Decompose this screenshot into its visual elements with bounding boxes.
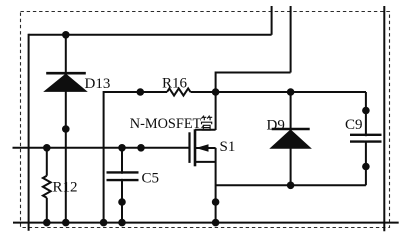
node R12 bottom junction bbox=[43, 219, 51, 227]
wire gate input horizontal y=92 bbox=[104, 91, 167, 93]
svg-text:C9: C9 bbox=[345, 117, 363, 133]
wire R12 branch x=46.8 bbox=[46, 148, 48, 223]
label guan character (drawn) bbox=[201, 116, 212, 130]
svg-text:D13: D13 bbox=[85, 76, 111, 92]
svg-text:S1: S1 bbox=[220, 139, 236, 155]
wire C5 branch x=122 bbox=[121, 148, 123, 223]
label D9 bbox=[267, 118, 285, 134]
node R16 input bbox=[137, 88, 145, 96]
wire right vertical bus x=384.3 bbox=[383, 6, 385, 231]
capacitor C5 bbox=[107, 172, 139, 180]
label D13 bbox=[85, 76, 111, 92]
label C9 bbox=[345, 117, 363, 133]
node D9 top junction bbox=[287, 88, 295, 96]
node R12 top junction bbox=[43, 144, 51, 152]
wire top lead-out left (to x=271.6) bbox=[271, 6, 273, 35]
svg-text:R12: R12 bbox=[53, 180, 78, 196]
node C9 top terminal bbox=[362, 107, 370, 115]
capacitor C9 bbox=[350, 135, 382, 142]
node drain junction bbox=[212, 88, 220, 96]
svg-text:N-MOSFET: N-MOSFET bbox=[130, 116, 202, 132]
label C5 bbox=[142, 171, 160, 187]
wire top-left horizontal rail bbox=[29, 34, 272, 36]
node gate rail junction bbox=[137, 144, 145, 152]
wire drain vertical x=215.6 bbox=[215, 72, 217, 131]
wire top lead-out right (to x=290.6) bbox=[290, 6, 292, 73]
label R16 bbox=[162, 76, 188, 92]
wire D9-C9 bottom link y=185.3 bbox=[216, 184, 366, 186]
diode D9 bbox=[271, 129, 311, 148]
wire left vertical bus bbox=[28, 34, 30, 231]
wire gate rail y=147.8 bbox=[13, 147, 190, 149]
wire R16 output to drain node bbox=[191, 91, 367, 93]
node gate input rail junction bbox=[100, 219, 108, 227]
wire drain top link y=72.5 bbox=[216, 72, 291, 74]
wire D13 branch x=65.8 bbox=[65, 35, 67, 223]
node C9 bottom terminal bbox=[362, 163, 370, 171]
svg-text:C5: C5 bbox=[142, 171, 160, 187]
wire bottom ground rail y=222.6 bbox=[13, 222, 399, 224]
node C5 bottom rail junction bbox=[118, 219, 126, 227]
node source terminal bbox=[212, 198, 220, 206]
node D13 bottom rail junction bbox=[62, 219, 70, 227]
wire gate input vertical x=103.6 bbox=[103, 91, 105, 223]
node D13 bottom terminal bbox=[62, 125, 70, 133]
node D9 bottom junction bbox=[287, 182, 295, 190]
diode D13 bbox=[45, 73, 87, 91]
node C5 top junction bbox=[118, 144, 126, 152]
svg-text:D9: D9 bbox=[267, 118, 285, 134]
label S1 bbox=[220, 139, 236, 155]
N-MOSFET Q1 (S1) bbox=[190, 129, 216, 166]
resistor R16 bbox=[167, 88, 191, 95]
label N-MOSFET (text part) bbox=[130, 116, 202, 132]
resistor R12 bbox=[43, 176, 51, 198]
node source rail junction bbox=[212, 219, 220, 227]
dashed module boundary box bbox=[21, 12, 390, 228]
wire D9 branch x=290.6 bbox=[290, 92, 292, 185]
wire C9 branch x=365.9 bbox=[365, 92, 367, 185]
wire MOSFET source vertical x=215.6 bbox=[215, 148, 217, 223]
node D13 top junction bbox=[62, 31, 70, 39]
svg-text:R16: R16 bbox=[162, 76, 188, 92]
label R12 bbox=[53, 180, 78, 196]
node C5 bottom terminal bbox=[118, 198, 126, 206]
